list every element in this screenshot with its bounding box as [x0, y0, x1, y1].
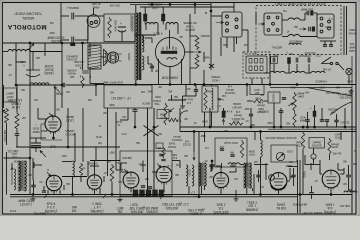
wire — [223, 108, 225, 111]
wire — [3, 51, 8, 53]
capacitor C7 + — [118, 27, 126, 32]
capacitor C22 — [220, 149, 224, 151]
node dot — [246, 84, 248, 86]
wire bus B2 — [180, 131, 356, 133]
resistor R12 — [328, 138, 331, 155]
ground G3 — [117, 198, 122, 202]
if transformer T5 — [243, 163, 250, 188]
node dot — [53, 137, 55, 139]
wire — [344, 108, 346, 127]
wire — [168, 99, 186, 101]
pilot lamp — [346, 68, 352, 74]
wire — [204, 85, 206, 87]
node dot — [299, 194, 301, 196]
capacitor C33 — [82, 71, 89, 73]
wire — [127, 108, 129, 120]
arrow C11 — [299, 28, 306, 30]
capacitor C32 — [31, 185, 35, 187]
wire — [15, 43, 17, 85]
wire — [337, 163, 339, 170]
tone box — [271, 145, 297, 162]
socket pin rect — [249, 59, 252, 64]
capacitor C19 — [133, 110, 138, 112]
wire — [336, 114, 338, 120]
wire — [319, 160, 321, 174]
wire bus B1 — [180, 126, 356, 128]
wire — [90, 15, 104, 17]
wire — [16, 135, 18, 147]
if transformer T4 — [198, 163, 205, 186]
switch S1 — [321, 57, 331, 64]
socket pin — [226, 29, 229, 32]
capacitor C14 — [273, 58, 275, 63]
capacitor C18 — [282, 98, 286, 100]
wire bus bottom1 — [10, 194, 352, 196]
arrow r16 — [169, 108, 174, 112]
wire — [233, 37, 235, 52]
wire — [101, 56, 106, 58]
wire — [246, 85, 248, 97]
socket pin rect — [255, 66, 258, 71]
wire — [286, 165, 292, 167]
wire — [220, 52, 222, 56]
node dot — [29, 157, 31, 159]
resistor R8 — [229, 122, 243, 125]
wire — [144, 7, 146, 14]
capacitor C39 — [150, 66, 154, 68]
resistor R6 — [168, 118, 179, 122]
wire — [193, 132, 195, 153]
wire — [29, 43, 31, 158]
socket pin — [235, 26, 238, 29]
node dot — [273, 126, 275, 128]
wire — [255, 12, 257, 24]
tube V7 dark arc — [271, 185, 286, 190]
resistor R14 — [110, 164, 114, 183]
wire — [338, 64, 344, 71]
capacitor C8 electrolytic — [144, 14, 147, 21]
wire — [304, 155, 306, 165]
wire — [185, 51, 193, 53]
wire top sub — [130, 4, 211, 6]
wire — [121, 162, 127, 164]
tube V4 — [123, 172, 139, 188]
node dot — [211, 160, 213, 162]
capacitor C26b — [320, 120, 324, 122]
socket pin — [267, 29, 270, 32]
wire — [220, 167, 222, 172]
node dot — [260, 131, 262, 133]
T2 arrow — [11, 167, 13, 185]
wire — [198, 132, 200, 197]
wire — [351, 96, 353, 213]
wire — [253, 174, 255, 195]
wire bus bottom2 — [10, 196, 297, 198]
wire — [63, 185, 65, 190]
capacitor C34 — [42, 191, 46, 192]
arrow into A — [258, 23, 265, 25]
tube V5 — [156, 167, 172, 183]
antenna coil inner — [14, 169, 16, 190]
resistor R17a — [195, 36, 199, 50]
wire — [220, 37, 222, 52]
node dot — [61, 42, 63, 44]
socket pin — [320, 17, 323, 20]
socket pin — [276, 29, 279, 32]
wire — [285, 72, 291, 74]
wire — [169, 67, 171, 85]
wire — [151, 38, 153, 43]
transformer T1 — [134, 13, 142, 80]
node dot — [194, 4, 196, 6]
socket pin — [272, 22, 275, 25]
wire — [34, 164, 42, 166]
wire bus upper — [62, 176, 87, 178]
T1 core — [138, 12, 140, 80]
wire X cross — [144, 126, 159, 137]
resistor R17b — [195, 54, 199, 68]
dashed box socket — [243, 52, 270, 78]
tube V2 — [46, 175, 61, 190]
socket pin — [226, 22, 229, 25]
inductor L11 — [228, 163, 240, 165]
node dot — [95, 84, 97, 86]
socket pin rect — [260, 59, 263, 64]
resistor R15 — [204, 88, 207, 110]
wire shield — [343, 6, 345, 55]
node dot — [147, 194, 149, 196]
wire — [221, 163, 223, 168]
socket pin — [320, 30, 323, 33]
wire — [107, 162, 109, 176]
capacitor C12 — [323, 45, 327, 47]
wire — [340, 173, 344, 175]
node dot — [82, 42, 84, 44]
wire — [195, 85, 197, 90]
wire — [66, 84, 96, 86]
node dot — [111, 194, 113, 196]
wire — [75, 15, 90, 17]
wire — [230, 165, 236, 167]
wire — [188, 186, 190, 195]
wire bus B3 — [268, 128, 356, 130]
vibrator circle — [155, 37, 184, 66]
edge shading right — [358, 0, 360, 216]
wire arc — [180, 111, 188, 122]
wire — [95, 147, 97, 161]
antenna coil T2 — [18, 161, 26, 191]
capacitor C15 + — [288, 58, 291, 64]
tube V1 — [45, 116, 61, 132]
wire — [321, 108, 323, 120]
wire — [310, 163, 312, 170]
wire — [111, 183, 113, 195]
label AK8PT — [250, 85, 264, 95]
node dot — [67, 146, 69, 148]
capacitor C3 electrolytic — [26, 62, 40, 77]
wire — [30, 137, 46, 139]
socket pin rect — [260, 66, 263, 71]
capacitor C17 — [308, 58, 310, 63]
wire bus — [16, 146, 96, 148]
edge shading left — [0, 0, 3, 216]
socket grid — [246, 56, 267, 73]
wire — [135, 80, 137, 85]
wire — [204, 112, 206, 127]
border right inner — [351, 56, 353, 214]
capacitor C6 padder — [31, 138, 41, 152]
wire — [140, 164, 146, 166]
wire — [203, 52, 205, 62]
fuse X — [209, 64, 214, 68]
node dot — [29, 42, 31, 44]
wire — [269, 54, 271, 85]
wire — [320, 173, 322, 175]
wire bus — [4, 157, 31, 159]
resistor R1 — [81, 76, 85, 88]
resistor R11 — [301, 132, 304, 151]
ground G1 — [348, 89, 353, 93]
ground G5 — [180, 104, 185, 108]
capacitor C4 — [63, 83, 65, 88]
wire — [95, 85, 97, 96]
capacitor C30 — [194, 90, 198, 92]
coil L8 — [73, 161, 75, 177]
node dot — [280, 126, 282, 128]
node dot — [260, 194, 262, 196]
capacitor C5 — [15, 134, 20, 136]
resistor R3 — [15, 112, 19, 130]
capacitor C25 electrolytic — [313, 111, 316, 117]
socket A box — [264, 13, 282, 35]
node dot — [151, 4, 153, 6]
wire — [99, 188, 101, 195]
wire — [90, 83, 104, 85]
arrow gnd2 — [193, 152, 195, 160]
socket B box — [317, 14, 334, 38]
tube V3 — [87, 175, 101, 189]
capacitor C24 — [279, 111, 283, 113]
node dot — [193, 131, 195, 133]
wire — [250, 108, 252, 114]
wire — [209, 108, 211, 127]
wire — [94, 161, 96, 175]
arrow R17 tap — [190, 51, 201, 53]
wire — [107, 108, 109, 162]
inductor L2 — [146, 23, 158, 25]
regbox — [202, 86, 218, 112]
wire — [258, 170, 260, 175]
wire — [226, 37, 228, 48]
resistor R13 — [79, 163, 82, 176]
wire — [172, 160, 180, 162]
node dot — [209, 126, 211, 128]
wire pair — [297, 160, 299, 213]
resistor R4 — [108, 17, 112, 38]
arrow to socket — [216, 21, 224, 23]
wire — [324, 41, 326, 45]
wire — [348, 165, 350, 175]
wire — [189, 30, 191, 36]
wire — [87, 161, 89, 177]
wire — [142, 161, 144, 173]
wire — [157, 25, 159, 36]
speaker detail — [109, 54, 117, 62]
wire — [142, 35, 144, 43]
capacitor C28 — [309, 193, 314, 195]
wire — [32, 158, 34, 180]
wire — [53, 191, 55, 195]
wire — [302, 150, 304, 195]
node dot — [307, 126, 309, 128]
socket pin — [320, 24, 323, 27]
wire — [16, 85, 18, 112]
wire — [6, 124, 8, 145]
wire — [61, 15, 69, 17]
converter box — [120, 151, 172, 196]
node dot — [203, 84, 205, 86]
wire — [212, 167, 213, 169]
node dot — [198, 196, 200, 198]
capacitor C31 — [159, 154, 163, 156]
wire — [235, 190, 237, 197]
T1 secondary — [142, 36, 144, 52]
wire — [144, 21, 146, 25]
node dot — [32, 194, 34, 196]
wire — [121, 31, 123, 42]
capacitor C1 — [72, 13, 74, 20]
capacitor C11 — [309, 27, 311, 32]
wire bus — [96, 84, 356, 86]
wire — [61, 39, 69, 41]
node dot — [314, 126, 316, 128]
wire — [355, 56, 357, 213]
wire — [171, 95, 173, 100]
capacitor C21 electrolytic — [222, 111, 225, 118]
inductor row — [8, 50, 30, 52]
wire — [349, 189, 353, 191]
wire — [3, 85, 5, 108]
ground G2 — [30, 197, 35, 201]
af box — [215, 138, 247, 167]
wire — [305, 12, 307, 14]
wire — [72, 177, 74, 195]
voice coil — [344, 191, 357, 193]
arrow trimmer — [40, 151, 46, 158]
wire — [311, 186, 313, 193]
wire — [240, 164, 244, 166]
wire — [251, 78, 253, 85]
wire bumpy — [270, 71, 285, 73]
wire — [260, 132, 262, 141]
wire — [273, 103, 275, 127]
socket pin — [328, 27, 331, 30]
inductor L3 — [166, 23, 178, 25]
wire — [189, 68, 191, 85]
potentiometer arrow — [28, 44, 34, 51]
wire — [340, 132, 342, 141]
wire bus AVC — [16, 84, 62, 86]
wire — [134, 108, 136, 110]
wire — [135, 34, 156, 36]
wire — [67, 108, 69, 147]
inductor L1 — [30, 83, 49, 85]
coil L10 — [261, 140, 263, 157]
node dot — [302, 126, 304, 128]
wire bus mid — [96, 146, 120, 148]
wire — [254, 164, 268, 166]
wire — [75, 39, 88, 41]
resistor R7 — [162, 147, 165, 158]
wire — [151, 64, 153, 66]
wire — [33, 180, 35, 185]
wire — [162, 7, 164, 14]
wire — [229, 171, 236, 173]
wire — [29, 158, 31, 195]
tube V7 — [270, 173, 287, 190]
terminal strip — [133, 190, 138, 196]
inductor L6 — [288, 35, 300, 37]
wire — [147, 56, 149, 64]
node dot — [135, 84, 137, 86]
tube V8 — [322, 170, 340, 188]
socket pin — [276, 16, 279, 19]
wire — [82, 43, 84, 70]
if label box — [104, 85, 152, 108]
node dot — [169, 84, 171, 86]
label 05M10 — [157, 110, 169, 119]
edge shading bottom — [0, 215, 360, 217]
wire — [282, 19, 288, 21]
wire — [61, 43, 63, 85]
capacitor C29 — [346, 175, 351, 177]
node dot — [250, 126, 252, 128]
resistor R5 pot — [293, 92, 297, 112]
node dot — [15, 84, 17, 86]
wire — [44, 43, 46, 56]
wire — [158, 59, 160, 85]
socket pin rect — [255, 59, 258, 64]
tube V6 — [213, 172, 228, 187]
capacitor C37 — [291, 175, 295, 177]
tone pot — [276, 152, 284, 160]
socket pin — [226, 15, 229, 18]
wire — [211, 161, 213, 165]
vibrator coil — [167, 58, 177, 60]
node dot — [134, 126, 136, 128]
resistor R10 — [293, 112, 296, 127]
wire — [211, 15, 222, 17]
wire — [47, 191, 49, 195]
capacitor C10 — [307, 11, 309, 16]
wire — [293, 168, 295, 175]
box 15000 — [309, 138, 325, 149]
wire — [153, 108, 155, 196]
capacitor C2 — [72, 37, 74, 44]
wire — [313, 148, 315, 154]
wire — [62, 161, 73, 163]
wire — [54, 85, 56, 117]
wire — [147, 108, 149, 196]
terminal B — [311, 154, 316, 159]
inductor L5 — [288, 18, 300, 20]
wire — [307, 112, 309, 120]
resistor R2 — [5, 108, 9, 124]
wire — [179, 108, 181, 132]
capacitor C26c — [334, 120, 338, 122]
edge shading top — [0, 0, 360, 2]
wire — [6, 152, 8, 195]
